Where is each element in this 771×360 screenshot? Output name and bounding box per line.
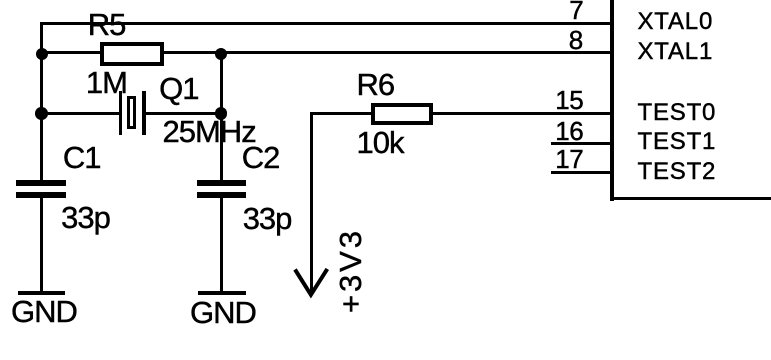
resistor R6 body <box>371 103 433 126</box>
IC bottom edge <box>610 197 771 200</box>
wire pin15 net TEST0 horizontal through R6 <box>310 112 615 115</box>
ground bar left GND <box>18 291 65 295</box>
ground bar right GND <box>198 291 246 295</box>
label Q1 <box>159 73 198 104</box>
wire pin17 stub TEST2 <box>551 171 614 174</box>
wire vertical right below C2 to GND <box>220 197 223 293</box>
wire vertical right node above C2 <box>220 53 223 180</box>
value 25MHz <box>163 116 256 147</box>
label R6 <box>357 69 395 100</box>
capacitor C2 top plate <box>197 180 246 187</box>
IC left edge <box>610 0 614 201</box>
value 33p left <box>61 202 110 233</box>
pin number 8 <box>569 27 583 53</box>
pin number 17 <box>555 146 583 172</box>
wire pin7 net XTAL0 horizontal <box>40 22 615 25</box>
resistor R5 body <box>100 42 163 66</box>
pin name TEST2 <box>638 160 717 184</box>
supply arrow +3V3 head <box>290 263 336 300</box>
junction node crystal right <box>215 107 228 120</box>
wire vertical left below C1 to GND <box>40 198 43 294</box>
label C1 <box>63 142 101 173</box>
crystal Q1 left plate <box>119 91 123 135</box>
capacitor C2 bottom plate <box>197 192 246 199</box>
capacitor C1 bottom plate <box>16 192 66 199</box>
value 10k <box>357 127 404 158</box>
pin number 7 <box>569 0 583 23</box>
ground label GND right <box>190 297 256 328</box>
pin name TEST1 <box>638 130 717 154</box>
wire crystal left segment <box>41 112 119 115</box>
junction node at XTAL1/right column <box>215 48 228 61</box>
supply label +3V3 rotated <box>335 228 366 313</box>
junction node at XTAL0/left <box>36 48 49 61</box>
wire pin16 stub TEST1 <box>551 142 614 145</box>
label R5 <box>88 9 126 40</box>
wire pin8 net XTAL1 horizontal <box>40 51 615 54</box>
crystal Q1 right plate <box>142 91 146 135</box>
wire vertical left node above C1 <box>40 22 43 180</box>
capacitor C1 top plate <box>16 180 66 187</box>
crystal Q1 body <box>127 96 136 128</box>
pin number 16 <box>555 118 583 144</box>
ground label GND left <box>11 296 77 327</box>
pin name XTAL0 <box>638 10 714 34</box>
pin name TEST0 <box>638 101 717 125</box>
value 1M <box>86 67 127 98</box>
wire crystal right segment <box>146 112 222 115</box>
pin number 15 <box>555 87 583 113</box>
value 33p right <box>243 203 292 234</box>
pin name XTAL1 <box>638 40 714 64</box>
junction node crystal left <box>35 107 48 120</box>
wire vertical +3V3 supply <box>310 113 313 294</box>
label C2 <box>242 142 280 173</box>
